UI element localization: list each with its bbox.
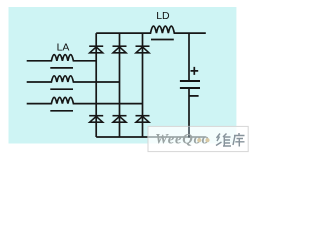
svg-text:WeeQoo: WeeQoo xyxy=(155,132,210,148)
svg-text:LA: LA xyxy=(57,41,70,53)
svg-text:LD: LD xyxy=(156,10,170,22)
